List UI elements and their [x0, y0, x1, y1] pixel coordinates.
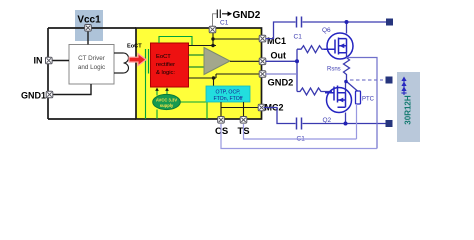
svg-text:IN: IN: [34, 55, 43, 65]
wire GND2 pin stub: [266, 73, 298, 75]
junction dot: [211, 44, 214, 47]
AVCC 3.3V supply ellipse: [153, 94, 181, 109]
wire MC2 internal: [221, 107, 262, 109]
wire CT box to transformer primary top: [114, 52, 124, 54]
green wire amp input lower: [189, 66, 205, 68]
wire C1 to terminal: [303, 21, 387, 23]
capacitor C1 top: [297, 17, 302, 28]
svg-text:FTOn, FTOff: FTOn, FTOff: [213, 96, 243, 102]
wire C1 bottom to terminal: [303, 123, 387, 125]
pin node MC2: [258, 104, 265, 111]
svg-text:rectifier: rectifier: [156, 62, 175, 68]
junction dot gates: [295, 59, 299, 63]
svg-text:supply: supply: [160, 103, 174, 108]
wire amp top rail: [189, 45, 217, 47]
svg-text:and Logic: and Logic: [78, 64, 105, 71]
junction dot Q2 source: [344, 122, 348, 126]
wire MC1 to C1 top: [266, 22, 296, 39]
wire Q2 source: [345, 113, 347, 124]
junction dot: [212, 76, 215, 79]
resistor Rsns: [344, 58, 350, 82]
wire CS sense vertical: [347, 58, 378, 149]
pin node CS: [218, 117, 225, 124]
node top C1: [209, 26, 216, 33]
op-amp comparator: [204, 48, 230, 75]
wire amp supply vertical: [212, 30, 214, 46]
svg-text:& logic:: & logic:: [156, 70, 175, 76]
30R12H arrow symbol: [403, 79, 405, 95]
wire GND1 to CT box bottom: [53, 84, 91, 95]
svg-text:GND2: GND2: [233, 10, 261, 21]
junction dot Q6 drain: [345, 20, 349, 24]
resistor Rg2: [297, 88, 332, 95]
wire Q6 source sense: [346, 53, 348, 58]
green wire transformer core to GND: [145, 74, 147, 120]
capacitor C1 bottom: [297, 118, 302, 130]
wire CS sense: [221, 124, 377, 149]
top C1 to GND2 symbol: [213, 14, 217, 30]
wire amp bottom rail: [189, 74, 263, 86]
wire TS internal: [243, 102, 245, 119]
blue power circuit: [264, 22, 387, 124]
svg-text:GND1: GND1: [21, 91, 46, 101]
svg-text:OTP, OCP,: OTP, OCP,: [216, 90, 241, 96]
svg-text:CS: CS: [215, 126, 228, 137]
pin node MC1: [259, 35, 266, 42]
svg-text:30R12H: 30R12H: [404, 95, 413, 125]
svg-text:PTC: PTC: [362, 97, 375, 103]
node IN: [46, 57, 53, 64]
node GND1: [46, 91, 53, 98]
wire amp output to Out pin: [230, 60, 262, 62]
yellow IC block: [136, 28, 262, 119]
green wire ellipse bottom to GND: [156, 110, 158, 120]
green wire red box top to amp rail: [159, 37, 192, 46]
MOSFET Q6: [324, 33, 353, 59]
arrowheads into red box: [155, 88, 169, 91]
OTP OCP protection box: [206, 86, 250, 102]
CT Driver and Logic box U2: [69, 45, 114, 85]
wire CT box to transformer primary bottom: [114, 72, 124, 74]
dashed sense line: [350, 79, 383, 81]
svg-text:C1: C1: [220, 20, 229, 27]
svg-text:GND2: GND2: [268, 78, 294, 88]
svg-text:Q2: Q2: [323, 117, 332, 124]
pin node TS: [240, 117, 247, 124]
wire Out to gates: [266, 49, 298, 91]
Vcc1 supply band: [75, 10, 103, 41]
resistor Rg1: [297, 46, 333, 53]
wire Q2 drain: [345, 82, 347, 93]
transformer T1 primary winding: [124, 53, 129, 73]
transformer T1 core: [146, 49, 149, 74]
svg-text:CT Driver: CT Driver: [78, 55, 105, 62]
wire IN to CT box: [52, 60, 69, 62]
wire MC1 internal: [213, 38, 262, 40]
wire MC2 to C1 bottom: [264, 108, 296, 124]
svg-text:EoCT: EoCT: [127, 44, 142, 50]
svg-text:AVCC 3.3V: AVCC 3.3V: [156, 98, 178, 103]
wire Rsns to PTC diagonal: [347, 82, 358, 92]
wire Vcc1 to CT box: [87, 28, 89, 45]
green wire supply to red box left: [157, 89, 167, 96]
pin node Out: [259, 58, 266, 65]
pin node GND2: [259, 71, 266, 78]
PTC thermistor: [356, 91, 361, 104]
svg-text:Rsns: Rsns: [327, 67, 341, 73]
wire bottom rail: [48, 118, 136, 120]
terminal square middle: [386, 77, 393, 84]
junction dot: [211, 37, 214, 40]
30R12H device band: [397, 72, 420, 142]
junction dot Rsns bottom: [344, 80, 348, 84]
MOSFET Q2: [325, 86, 352, 113]
EoCT rectifier and logic box: [151, 43, 189, 87]
svg-text:MC1: MC1: [267, 36, 286, 46]
wire TS to PTC: [244, 104, 357, 139]
wire top rail: [48, 27, 136, 29]
svg-text:Q6: Q6: [322, 27, 331, 34]
transformer energy arrow: [129, 54, 146, 66]
wire Q6 drain: [346, 22, 348, 34]
wire CS internal: [220, 102, 222, 119]
green wire ellipse to right: [180, 102, 207, 119]
wire PTC top: [357, 90, 359, 93]
terminal square top: [386, 19, 393, 26]
green wire amp input upper: [189, 54, 205, 56]
svg-text:EoCT: EoCT: [156, 54, 171, 60]
wire left rail: [47, 28, 49, 119]
node Vcc1: [85, 25, 92, 32]
terminal square bottom: [386, 120, 393, 127]
svg-text:Out: Out: [271, 51, 287, 61]
svg-text:C1: C1: [294, 34, 303, 41]
